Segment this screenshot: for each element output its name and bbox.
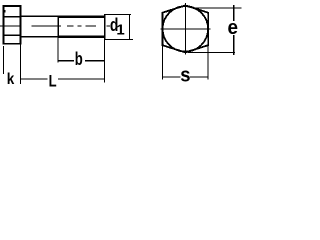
L dimension line	[21, 79, 48, 80]
thread top edge	[57, 15, 105, 18]
horizontal centerline	[161, 28, 211, 29]
k extension line left	[3, 46, 4, 74]
b extension line left	[57, 38, 58, 62]
svg-text:1: 1	[116, 21, 124, 38]
thread start line	[57, 16, 59, 38]
bolt head top edge	[2, 5, 21, 7]
e extension line top	[193, 7, 241, 8]
e extension line bottom	[188, 52, 236, 53]
shank top edge	[22, 15, 58, 17]
bolt head bottom edge	[2, 43, 21, 45]
chamfer circle	[163, 6, 208, 51]
head chamfer line upper	[4, 16, 19, 17]
b dimension line	[57, 60, 74, 61]
bolt head bearing face (right edge)	[20, 5, 22, 45]
shank bottom edge	[22, 36, 58, 38]
s extension line left	[162, 41, 163, 79]
svg-text:b: b	[75, 49, 83, 69]
d1 extension top	[105, 14, 131, 15]
thread bottom edge	[57, 35, 105, 38]
s dimension line	[162, 76, 181, 77]
head edge notch	[3, 10, 6, 13]
vertical centerline	[185, 3, 186, 54]
svg-text:s: s	[180, 65, 190, 87]
L extension line right	[104, 40, 105, 82]
svg-text:L: L	[49, 71, 57, 87]
bolt head left face	[2, 5, 4, 45]
centerline bolt axis	[0, 25, 110, 26]
hexagon head end view	[162, 5, 208, 52]
k/L extension line (under head)	[20, 45, 21, 84]
bolt end line	[104, 14, 106, 40]
s extension line right	[208, 41, 209, 79]
svg-text:k: k	[7, 71, 15, 87]
d1 extension bottom	[104, 39, 133, 40]
svg-text:e: e	[228, 17, 239, 39]
e dimension line	[233, 5, 234, 21]
head chamfer line lower	[4, 35, 19, 36]
d1 dimension line	[129, 14, 130, 40]
